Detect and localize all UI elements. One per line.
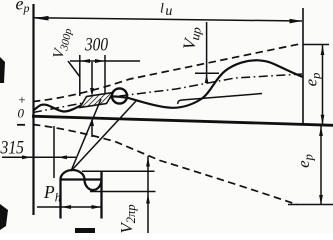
315 extension line	[53, 126, 55, 178]
V_up arrow	[205, 74, 209, 83]
300 dimension: extension line left	[79, 55, 81, 96]
label minus	[17, 124, 25, 126]
svg-text:lu: lu	[160, 2, 172, 20]
upper e_p dimension tick	[303, 44, 329, 46]
V_2pip arrows	[146, 157, 150, 167]
P_h dimension line	[37, 206, 102, 208]
amplitude arrow pointing up to baseline	[91, 124, 93, 137]
svg-text:0: 0	[18, 106, 25, 121]
scan artifact bottom middle	[75, 228, 95, 233]
svg-text:315: 315	[0, 139, 24, 159]
V_up reference tick	[195, 72, 219, 74]
svg-text:300: 300	[84, 36, 108, 56]
groove detail: base line	[61, 178, 102, 180]
hatched section of curve	[80, 93, 113, 108]
upper e_p dimension line	[322, 45, 324, 125]
groove detail: hump above	[61, 170, 85, 180]
V_2pip dimension line	[147, 156, 149, 233]
300 dimension line	[70, 60, 140, 62]
lower dashed envelope	[33, 125, 297, 205]
label V_2pip (rotated)	[117, 204, 138, 233]
P_h arrows	[62, 205, 72, 209]
300 dimension arrows	[81, 59, 90, 63]
leader from V_300p	[68, 61, 80, 77]
groove detail: dip below	[85, 180, 102, 191]
groove detail: right edge	[100, 172, 102, 219]
315 dimension line	[2, 156, 76, 158]
scan artifact left edge	[0, 57, 5, 83]
300 dimension: extension line right	[104, 55, 106, 94]
groove detail: left edge	[59, 180, 61, 219]
upper e_p arrows	[321, 45, 325, 55]
lower e_p bottom tick	[288, 204, 333, 206]
lower e_p dimension line	[320, 126, 322, 205]
315 arrows	[22, 155, 32, 159]
amplitude arrow pointing down to hatched section	[91, 62, 93, 90]
detail circle	[112, 88, 127, 103]
label V_up (rotated)	[179, 24, 204, 51]
label V_300p (rotated)	[51, 26, 75, 61]
leader line from curve to groove detail	[71, 101, 136, 171]
dash-dot center line	[33, 74, 302, 113]
reference line upper (groove top level)	[82, 170, 155, 172]
svg-text:ep: ep	[16, 0, 30, 15]
lower e_p arrows	[319, 126, 323, 136]
vertical amplitude axis	[32, 4, 34, 215]
leader line from hatch to groove detail	[71, 99, 101, 171]
dimension l_u line with arrows	[34, 18, 302, 21]
upper dashed envelope	[33, 44, 302, 102]
right extension line	[302, 8, 304, 125]
label e_p upper right (rotated)	[302, 73, 324, 87]
scan artifact bottom left	[0, 204, 8, 230]
reference line lower (groove depth level)	[90, 191, 156, 193]
thin auxiliary line under hump	[178, 94, 262, 105]
label e_p lower right (rotated)	[294, 154, 316, 168]
recorded signal curve	[33, 60, 303, 111]
zero baseline (0 axis)	[32, 116, 333, 125]
V_up dimension line	[206, 22, 208, 83]
